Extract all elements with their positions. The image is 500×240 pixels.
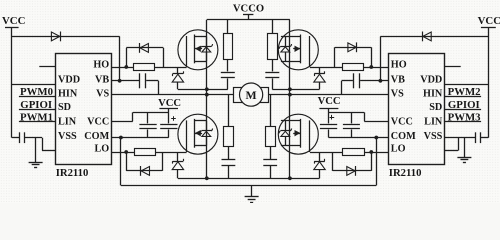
wire C4 to source node xyxy=(227,78,229,89)
wire HO loop top right xyxy=(335,47,372,49)
wire GPIOI to SD right xyxy=(445,109,481,111)
svg-text:VDD: VDD xyxy=(420,74,442,85)
wire Z2 anode down xyxy=(319,82,321,89)
wire VSS into U2 xyxy=(445,150,458,152)
node source rail right xyxy=(288,176,292,180)
C7 plus sign left xyxy=(171,118,176,120)
capacitor C4 snubber top-left xyxy=(221,72,235,74)
svg-text:HIN: HIN xyxy=(423,89,443,100)
svg-text:VSS: VSS xyxy=(58,131,77,142)
wire COM down left xyxy=(120,138,122,186)
wire Z1 stub xyxy=(177,67,179,74)
wire rail to VSS cap right xyxy=(481,137,488,139)
power VCC mid-right bar xyxy=(319,108,338,110)
wire VCC pin left xyxy=(112,121,133,123)
wire VCC header left xyxy=(133,112,169,114)
wire Z2 stub xyxy=(319,67,321,74)
wire Z2 to column xyxy=(272,89,319,91)
svg-text:VCC: VCC xyxy=(318,96,341,107)
wire LO loop up right xyxy=(332,152,334,171)
svg-text:VB: VB xyxy=(95,74,109,85)
wire Z3 anode down xyxy=(177,170,179,179)
resistor R5 gate HO right xyxy=(343,64,364,71)
wire R1 to gate xyxy=(154,67,186,69)
wire VCC header right xyxy=(329,112,365,114)
wire R4 to C8 xyxy=(228,146,230,159)
wire VS phase left xyxy=(112,94,234,96)
wire bootstrap to VB drop xyxy=(119,36,121,80)
power VCC right-top bar xyxy=(481,27,496,29)
svg-text:COM: COM xyxy=(84,131,109,142)
node LO junction right xyxy=(369,150,373,154)
wire Z1 to column xyxy=(178,89,228,91)
capacitor C11 bootstrap right xyxy=(359,73,361,88)
wire COM down right xyxy=(376,138,378,186)
wire C14 to rail xyxy=(270,166,272,179)
wire VSS into U1 xyxy=(42,150,55,152)
C12 plus sign right xyxy=(330,117,335,119)
wire R6 top lead xyxy=(272,20,274,34)
node source rail left xyxy=(205,176,209,180)
transistor Q1 top-left xyxy=(178,30,218,70)
node HO junction right xyxy=(369,65,373,69)
wire COM out right xyxy=(329,137,389,139)
node phase-column left xyxy=(205,93,209,97)
svg-text:LO: LO xyxy=(94,144,109,155)
diode D6 antiparallel HO right xyxy=(348,43,356,52)
wire LO loop down right xyxy=(371,152,373,171)
svg-text:VCC: VCC xyxy=(2,15,25,27)
svg-text:LIN: LIN xyxy=(58,117,77,128)
node HO junction left xyxy=(124,65,128,69)
wire HO loop down right xyxy=(334,47,336,67)
svg-text:VCC: VCC xyxy=(391,117,413,128)
wire VCC right rail vertical xyxy=(488,27,490,138)
wire COM out left xyxy=(112,137,169,139)
ground VSS left xyxy=(35,138,37,162)
wire VCC to bootstrap diode right xyxy=(380,36,488,38)
wire VS phase center-right xyxy=(269,94,389,96)
svg-text:LO: LO xyxy=(391,144,406,155)
resistor R8 snubber bottom-right xyxy=(266,127,276,147)
wire bootstrap to VB drop right xyxy=(380,36,382,80)
svg-text:VCC: VCC xyxy=(478,15,500,27)
ground VSS right xyxy=(464,138,466,158)
wire VCC riser left xyxy=(132,112,134,121)
wire R2 top lead xyxy=(227,20,229,34)
node VB junction left xyxy=(118,79,122,83)
transistor Q2 top-right xyxy=(278,30,318,70)
wire LO loop bottom right xyxy=(333,170,372,172)
wire VDD right xyxy=(445,84,489,86)
node COM junction right xyxy=(374,136,378,140)
wire GPIOI to SD xyxy=(19,109,55,111)
zener Z3 gate protect bottom-left xyxy=(173,161,184,163)
wire rail to VSS cap xyxy=(12,137,19,139)
svg-text:VCC: VCC xyxy=(87,117,109,128)
resistor R7 gate LO right xyxy=(343,149,365,156)
node VB junction right xyxy=(379,79,383,83)
resistor R6 snubber top-right xyxy=(268,34,278,60)
capacitor C14 snubber bottom-right xyxy=(263,159,277,161)
wire VB out right xyxy=(360,80,388,82)
wire source rail xyxy=(178,178,320,180)
wire VDD left xyxy=(12,84,55,86)
wire LO out right xyxy=(364,152,388,154)
capacitor C8 snubber bottom-left xyxy=(222,159,236,161)
wire R7 to gate right xyxy=(310,152,342,154)
svg-text:LIN: LIN xyxy=(424,117,443,128)
svg-text:IR2110: IR2110 xyxy=(389,167,422,179)
zener Z2 gate protect top-right xyxy=(314,73,325,75)
wire PWM1 to LIN xyxy=(19,121,55,123)
motor M frame xyxy=(234,88,269,103)
power VCC mid-right stub xyxy=(328,108,330,112)
wire R2 to C4 xyxy=(227,59,229,71)
wire PWM3 to LIN xyxy=(445,121,481,123)
wire HO loop down xyxy=(163,48,165,67)
node LO junction left xyxy=(124,150,128,154)
capacitor C6 decoupling left xyxy=(147,112,149,123)
wire ground rail xyxy=(121,185,376,187)
resistor R3 gate LO left xyxy=(135,149,156,156)
wire VCC pin right xyxy=(364,121,388,123)
wire HO loop top xyxy=(126,47,163,49)
wire R8 to C14 xyxy=(270,146,272,159)
power VCCO bar xyxy=(243,14,253,16)
svg-text:VSS: VSS xyxy=(424,131,443,142)
svg-text:VS: VS xyxy=(96,89,109,100)
wire C10 to source node xyxy=(272,78,274,89)
IC U2 IR2110 right box xyxy=(389,54,445,165)
power VCC mid-left stub xyxy=(168,108,170,112)
wire R5 to gate right xyxy=(310,67,342,69)
wire VCC left rail vertical xyxy=(11,27,13,138)
diode D8 antiparallel LO right xyxy=(347,167,355,176)
svg-text:COM: COM xyxy=(391,131,416,142)
wire Z3 stub xyxy=(177,152,179,161)
wire C8 to rail xyxy=(228,166,230,179)
resistor R2 snubber top-left xyxy=(224,34,233,60)
wire LO loop down xyxy=(126,152,128,171)
svg-text:VDD: VDD xyxy=(58,74,80,85)
wire VSS tee down right xyxy=(458,138,460,151)
wire VB out xyxy=(112,80,140,82)
svg-text:VS: VS xyxy=(391,89,404,100)
node source junction top-right xyxy=(288,87,292,91)
wire VSS cap to tee xyxy=(25,137,42,139)
node source junction top-left xyxy=(205,87,209,91)
wire C5 to phase xyxy=(146,80,158,82)
bootstrap diode D1 xyxy=(51,32,59,41)
capacitor C13 decoupling right xyxy=(351,112,353,123)
IC U1 IR2110 left box xyxy=(56,54,112,165)
wire VSS tee down xyxy=(42,138,44,151)
power VCCO stub xyxy=(248,15,250,20)
capacitor C9 VSS bypass right xyxy=(480,132,482,143)
svg-text:VCCO: VCCO xyxy=(233,4,264,15)
power VCC left-top bar xyxy=(5,27,19,29)
node phase-column right xyxy=(288,93,292,97)
wire PWM2 to HIN xyxy=(445,96,481,98)
wire LO loop bottom xyxy=(126,170,162,172)
wire Z4 stub xyxy=(319,152,321,161)
wire HO out right xyxy=(364,67,389,69)
diode D4 antiparallel LO left xyxy=(141,167,149,176)
svg-text:HIN: HIN xyxy=(58,89,78,100)
zener Z1 gate protect top-left xyxy=(173,73,184,75)
capacitor C12 electrolytic right xyxy=(328,112,330,123)
svg-text:VB: VB xyxy=(391,74,405,85)
motor M circle xyxy=(240,83,263,106)
node COM junction left xyxy=(119,136,123,140)
wire R4 top lead xyxy=(228,95,230,126)
resistor R1 gate HO left xyxy=(134,64,155,71)
wire R3 to gate xyxy=(155,152,186,154)
transistor Q4 bottom-right xyxy=(278,114,318,154)
capacitor C7 electrolytic left xyxy=(168,112,170,123)
capacitor C1 VSS bypass left xyxy=(19,132,21,143)
svg-text:SD: SD xyxy=(58,102,71,113)
power VCC mid-left bar xyxy=(159,108,178,110)
wire VSS pin right xyxy=(445,137,476,139)
stub pin right of U2 top xyxy=(445,66,461,68)
stub pin left of U1 top xyxy=(39,66,55,68)
wire R6 to C10 xyxy=(272,59,274,71)
wire HO loop up xyxy=(126,48,128,67)
wire Z1 anode down xyxy=(177,82,179,89)
capacitor C5 bootstrap left xyxy=(139,73,141,88)
ground main center xyxy=(251,185,253,196)
bootstrap diode D5 xyxy=(423,32,431,41)
wire top rail VCCO xyxy=(207,19,290,21)
wire Z4 anode down xyxy=(319,170,321,179)
capacitor C10 snubber top-right xyxy=(265,72,279,74)
wire LO loop up xyxy=(162,152,164,171)
wire HO out xyxy=(112,67,134,69)
wire R8 top lead xyxy=(270,95,272,126)
wire C11 to phase xyxy=(342,80,353,82)
wire column right xyxy=(289,20,291,179)
wire PWM0 to HIN xyxy=(19,96,55,98)
transistor Q3 bottom-left xyxy=(178,114,218,154)
wire LO out xyxy=(112,152,135,154)
svg-text:HO: HO xyxy=(391,59,407,70)
wire HO loop up right xyxy=(371,47,373,67)
resistor R4 snubber bottom-left xyxy=(224,127,234,147)
zener Z4 gate protect bottom-right xyxy=(314,161,325,163)
diode D2 antiparallel HO left xyxy=(140,44,148,53)
svg-text:HO: HO xyxy=(93,59,109,70)
svg-text:VCC: VCC xyxy=(158,98,181,109)
wire VCC to bootstrap diode xyxy=(12,36,120,38)
svg-text:M: M xyxy=(246,88,257,102)
wire VCC riser right xyxy=(364,112,366,121)
svg-text:SD: SD xyxy=(429,102,442,113)
svg-text:IR2110: IR2110 xyxy=(56,167,89,179)
wire column left xyxy=(206,20,208,179)
